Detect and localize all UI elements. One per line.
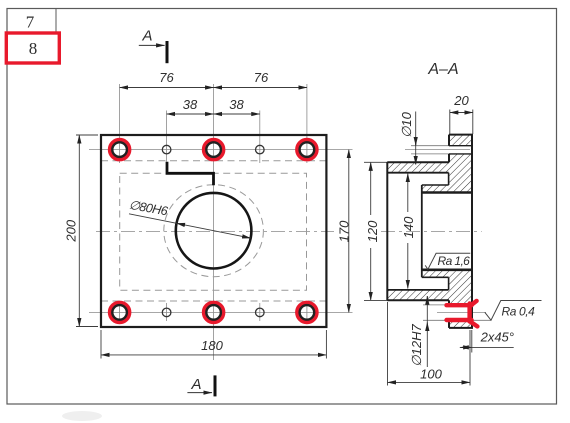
svg-text:170: 170 <box>336 220 351 242</box>
svg-text:200: 200 <box>64 219 79 242</box>
svg-text:38: 38 <box>229 97 244 112</box>
svg-text:A: A <box>190 376 201 393</box>
svg-text:8: 8 <box>29 39 38 58</box>
svg-text:100: 100 <box>420 367 442 382</box>
svg-text:76: 76 <box>254 70 269 85</box>
svg-text:A–A: A–A <box>427 61 458 78</box>
svg-text:38: 38 <box>183 97 198 112</box>
svg-text:2x45°: 2x45° <box>480 330 514 345</box>
svg-text:∅10: ∅10 <box>399 111 414 138</box>
svg-text:A: A <box>141 28 152 45</box>
svg-text:Ra 0,4: Ra 0,4 <box>502 305 536 319</box>
svg-text:∅12H7: ∅12H7 <box>409 324 424 367</box>
svg-text:180: 180 <box>201 338 223 353</box>
svg-text:7: 7 <box>26 13 35 32</box>
svg-text:120: 120 <box>365 220 380 242</box>
svg-text:20: 20 <box>453 93 469 108</box>
svg-text:Ra 1,6: Ra 1,6 <box>438 254 471 268</box>
svg-text:76: 76 <box>159 70 174 85</box>
svg-text:140: 140 <box>401 216 416 238</box>
svg-text:∅80H6: ∅80H6 <box>128 198 169 219</box>
